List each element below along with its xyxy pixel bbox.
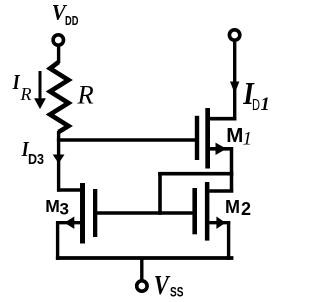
label VDD <box>52 0 79 28</box>
M2 channel bar <box>205 182 210 241</box>
label M1 <box>226 124 252 150</box>
wire M1 drain to terminal <box>233 42 236 121</box>
svg-text:1: 1 <box>261 95 270 115</box>
terminal VSS <box>137 281 147 291</box>
M1 source lead <box>210 147 233 151</box>
M2 gate bar <box>192 188 197 234</box>
wire VSS stub <box>140 258 143 280</box>
svg-text:M: M <box>225 197 240 217</box>
svg-text:V: V <box>154 271 171 301</box>
M3 gate bar <box>93 189 97 237</box>
svg-text:SS: SS <box>170 284 184 300</box>
wire M2 source to rail <box>227 221 230 260</box>
terminal VDD <box>53 35 63 45</box>
transistor M2 <box>192 182 233 241</box>
M1 source arrow <box>216 143 227 155</box>
current arrow ID3 <box>53 155 65 164</box>
svg-text:M: M <box>45 196 60 216</box>
M3 drain lead <box>57 188 80 191</box>
label ID3 <box>21 138 44 168</box>
wire node to M1 gate <box>57 138 196 141</box>
label VSS <box>154 271 184 301</box>
wire gate rail M3 to M2 <box>97 211 195 215</box>
svg-text:M: M <box>226 124 243 147</box>
terminal ID1 <box>229 30 239 40</box>
svg-text:D: D <box>252 97 260 114</box>
svg-text:D3: D3 <box>28 151 44 168</box>
svg-text:2: 2 <box>241 199 251 219</box>
svg-text:R: R <box>20 84 32 104</box>
M1 gate bar <box>195 116 199 160</box>
label M2 <box>225 197 251 219</box>
svg-text:R: R <box>77 80 94 110</box>
M1 drain lead <box>210 117 236 121</box>
wire vertical connector <box>158 172 162 215</box>
M2 source arrow <box>216 217 225 229</box>
transistor M3 <box>57 183 97 244</box>
M3 source lead <box>57 221 80 224</box>
M2 source lead <box>209 221 230 224</box>
wire M3 source to rail <box>56 221 59 260</box>
M1 channel bar <box>205 108 210 169</box>
M3 source arrow <box>64 217 74 229</box>
current arrow ID1 <box>230 82 239 94</box>
M3 channel bar <box>80 183 85 244</box>
svg-text:I: I <box>12 71 21 95</box>
label IR <box>12 71 32 104</box>
svg-text:DD: DD <box>65 13 78 28</box>
svg-text:1: 1 <box>243 129 253 150</box>
resistor R <box>50 62 69 132</box>
wire VDD stub <box>57 45 60 63</box>
label ID1 <box>242 77 269 115</box>
svg-text:3: 3 <box>60 200 69 219</box>
label M3 <box>45 196 69 218</box>
current arrow IR <box>34 71 46 109</box>
wire resistor to M3 drain <box>57 131 60 192</box>
wire VSS rail <box>56 256 234 260</box>
wire M1 source to M2 drain <box>230 147 234 193</box>
wire M1 source to mirror <box>158 172 233 176</box>
transistor M1 <box>195 108 236 169</box>
M2 drain lead <box>209 189 233 192</box>
